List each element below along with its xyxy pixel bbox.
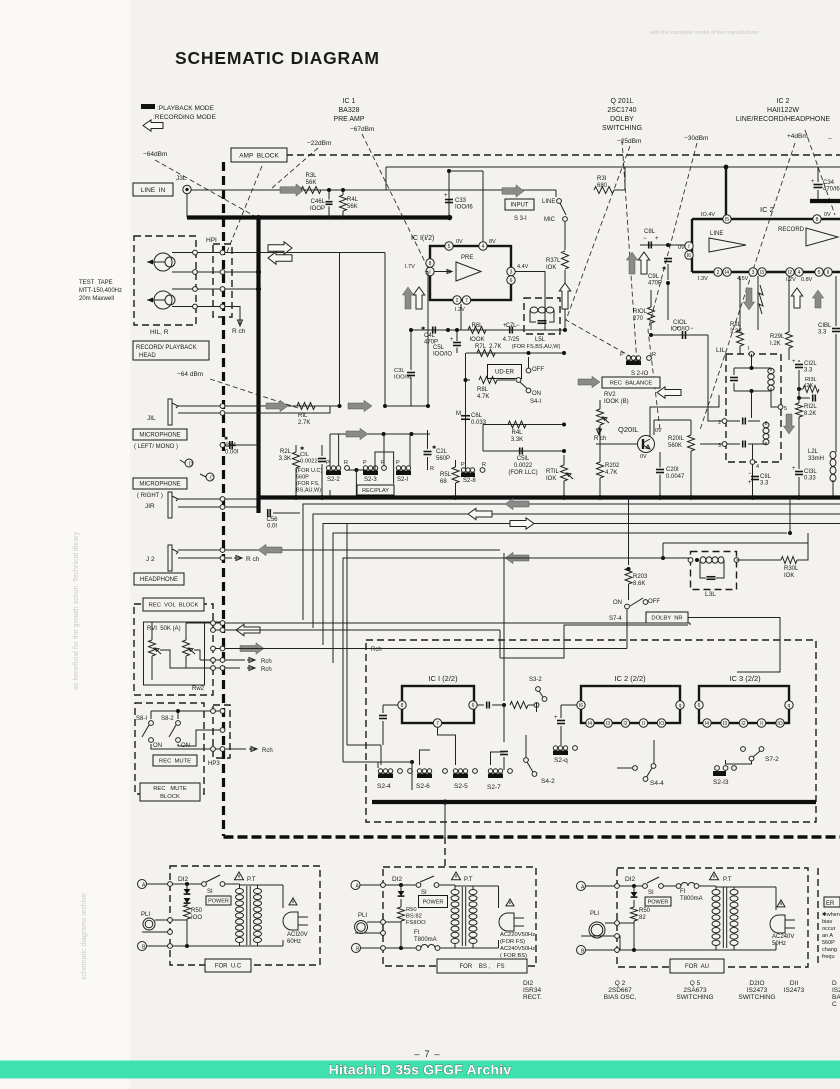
unit1 label box POWER (206, 896, 231, 905)
svg-text:R: R (344, 460, 348, 466)
hollow arrow up mic path (559, 283, 570, 309)
svg-text:3.3: 3.3 (760, 481, 769, 487)
svg-text:S2-8: S2-8 (463, 478, 476, 484)
svg-text:INPUT: INPUT (511, 203, 529, 209)
IC2 pin 15 (723, 215, 731, 223)
svg-text:S 3-I: S 3-I (514, 216, 527, 222)
svg-text:4: 4 (798, 270, 801, 276)
switch S2-13 (715, 766, 720, 771)
svg-text:ER: ER (826, 901, 835, 907)
unit2 resistor R50 (398, 907, 405, 921)
svg-text:SWITCHING: SWITCHING (602, 125, 642, 132)
svg-text:as beneficial for the growth a: as beneficial for the growth action. Tec… (73, 531, 80, 690)
wire left bend of top horizontal (385, 167, 387, 190)
svg-text:frequ: frequ (822, 954, 835, 960)
harness wire row 2 (313, 514, 840, 628)
svg-text:680: 680 (597, 183, 608, 189)
svg-text:(FOR LLC): (FOR LLC) (508, 470, 537, 476)
hollow arrow up below IC1 (413, 287, 424, 309)
unit3 terminal B (577, 946, 586, 955)
svg-text:JIL: JIL (147, 415, 156, 422)
svg-text:S8-2: S8-2 (161, 716, 174, 722)
capacitor C9L vertical (664, 258, 672, 260)
capacitor below pin6 node (500, 751, 508, 753)
unit1 wire lamp row (155, 919, 187, 921)
svg-text:LIL: LIL (716, 347, 725, 354)
gray arrow on R1L wire (266, 400, 288, 411)
capacitor C5lL (519, 448, 521, 455)
unit3 plug warning triangle (777, 900, 785, 907)
wire pin3 out right (515, 272, 545, 331)
svg-text:IOOK: IOOK (469, 337, 484, 343)
capacitor C2L (424, 451, 432, 453)
svg-text:REC VOL BLOCK: REC VOL BLOCK (149, 603, 199, 609)
IC2 pins 12 4 (786, 268, 794, 276)
IC2 pin 8 (813, 215, 821, 223)
junction UD-ER left (464, 378, 468, 382)
svg-text:IO: IO (777, 721, 782, 727)
unit2 terminal B (352, 944, 361, 953)
svg-text:82: 82 (639, 915, 646, 921)
circled C connector (200, 474, 208, 478)
svg-text:PRE: PRE (461, 255, 473, 261)
IC1 pin 6 (507, 276, 515, 284)
inductor L3L contacts (688, 558, 693, 563)
hollow arrow up at pin12 (791, 288, 802, 308)
unit3 transformer bottom wires (716, 949, 776, 951)
svg-text:S4-2: S4-2 (541, 778, 555, 785)
svg-text:+: + (811, 179, 815, 185)
resistor R3L on line-in wire (301, 187, 321, 194)
wire C6L row R4L (465, 421, 467, 425)
svg-text:I2: I2 (788, 270, 792, 276)
svg-text:LINE/RECORD/HEADPHONE: LINE/RECORD/HEADPHONE (736, 116, 830, 123)
svg-text:Rch: Rch (261, 667, 272, 673)
unit2 terminal A (351, 881, 360, 890)
unit1 resistor R50 (184, 905, 191, 919)
svg-text:D: D (832, 980, 837, 987)
svg-text:−: − (828, 136, 832, 143)
svg-text:−67dBm: −67dBm (350, 126, 374, 133)
wire j3l down to bus (186, 194, 188, 218)
svg-text:R3I: R3I (597, 176, 607, 182)
svg-text:BLOCK: BLOCK (160, 794, 180, 800)
svg-text:AMP BLOCK: AMP BLOCK (239, 152, 279, 159)
resistor R11L vertical (737, 330, 744, 346)
switch lever line-mic (560, 203, 566, 215)
svg-text:R203: R203 (633, 574, 648, 580)
svg-text:PLI: PLI (141, 912, 150, 918)
svg-text:560P: 560P (822, 940, 835, 946)
svg-text:560P: 560P (296, 475, 309, 481)
hollow arrow left at head top (268, 252, 292, 264)
label box REC VOL BLOCK (143, 598, 204, 611)
dashed connector outer box to units (444, 837, 446, 866)
wire dolby right hook (688, 618, 780, 673)
svg-text:IS2473: IS2473 (747, 987, 768, 994)
svg-text:MTT-150,400Hz: MTT-150,400Hz (79, 288, 122, 294)
svg-text:−64dBm: −64dBm (143, 151, 167, 158)
svg-text:C34: C34 (823, 180, 835, 186)
unit2 open circles on box edge (381, 883, 386, 888)
wire down from pin3 to R11L (757, 276, 759, 330)
svg-text:C9L: C9L (648, 274, 660, 280)
unit2 label box FOR BS FS (437, 959, 527, 973)
junction R7L right (527, 351, 531, 355)
label box HEADPHONE (134, 573, 184, 585)
svg-text:R20IL: R20IL (668, 436, 685, 442)
svg-text:0.0I: 0.0I (267, 524, 277, 530)
svg-text:3: 3 (752, 270, 755, 276)
hollow arrow left harness row2 (468, 508, 492, 519)
IC1 pins 2 7 bottom (453, 296, 461, 304)
svg-text:S3-2: S3-2 (529, 677, 542, 683)
svg-text:I.7V: I.7V (405, 264, 415, 270)
svg-text:CI2L: CI2L (804, 361, 817, 367)
svg-text:UD-ER: UD-ER (495, 370, 515, 376)
svg-text:RECT.: RECT. (523, 994, 542, 1001)
svg-text:LINE: LINE (542, 199, 555, 205)
thick bus vertical main left (256, 218, 260, 498)
label box REC MUTE BLOCK (140, 783, 200, 801)
svg-text:I3: I3 (760, 270, 764, 276)
label box MICROPHONE left (133, 429, 187, 440)
svg-text:0.8V: 0.8V (801, 277, 813, 283)
harness wire row 5 (343, 558, 690, 671)
head wire row 2 (172, 271, 259, 273)
pointer dashed diagonal from Q201L label to S2-10 (622, 140, 637, 364)
unit2 transformer top wires (455, 885, 499, 887)
svg-text:S2-3: S2-3 (364, 477, 377, 483)
wire J1L tip (178, 405, 340, 407)
wire Q201 base row (596, 443, 637, 445)
svg-text:BS,AU,W): BS,AU,W) (296, 488, 321, 494)
pointer dashed diagonal from -30dBm to C8L input (648, 143, 697, 430)
svg-text:560K: 560K (668, 443, 682, 449)
IC1b pin 8 (398, 701, 406, 709)
hollow arrow right at head top (268, 242, 292, 254)
legend playback mode solid arrow (141, 104, 155, 109)
IC2 pins 2 14 (714, 268, 722, 276)
hollow arrow up input IC2 (638, 252, 649, 274)
jack J1R symbol (168, 492, 172, 518)
svg-text:POWER: POWER (208, 898, 229, 904)
svg-text:Q 201L: Q 201L (611, 98, 634, 105)
capacitor C4L (432, 327, 434, 334)
gray arrow up below IC1 (402, 287, 413, 309)
svg-text:(FOR FS,BS,AU,W): (FOR FS,BS,AU,W) (512, 344, 561, 350)
svg-text:IOOP: IOOP (310, 206, 325, 212)
svg-text:ON: ON (613, 600, 622, 606)
svg-text:REC MUTE: REC MUTE (153, 786, 187, 792)
svg-text:R50: R50 (639, 908, 651, 914)
wire line-in to LINE contact (555, 190, 557, 197)
svg-text:PLI: PLI (358, 913, 367, 919)
svg-text:IOK: IOK (784, 573, 794, 579)
junction R4L top (341, 188, 345, 192)
wire S2-4 6 link (378, 761, 412, 763)
wire R31 to top wire (614, 167, 625, 190)
svg-text:I2K: I2K (805, 383, 814, 389)
capacitor C10L (682, 331, 684, 339)
wire C5L down (456, 348, 458, 354)
pointer dashed diagonal from -64dBm mid to R1L wire (210, 379, 298, 408)
svg-text:+: + (554, 715, 558, 721)
svg-text:RECORD: RECORD (778, 227, 805, 233)
wire IC2 bottom pins row thick (692, 271, 840, 273)
svg-text:CI3L: CI3L (804, 469, 817, 475)
svg-text:C44: C44 (225, 443, 237, 449)
switch OFF S4-1 upper (528, 357, 530, 368)
wire RV1 rows right (186, 622, 690, 624)
switch S8-1 (149, 721, 154, 726)
capacitor C44 (229, 441, 231, 449)
svg-text:C: C (832, 1001, 837, 1008)
wire L3L row (343, 557, 690, 559)
arrow Rch rec mute (249, 747, 257, 752)
svg-text:IS2: IS2 (832, 987, 840, 994)
unit1 transformer top wires (240, 884, 284, 886)
opamp LINE triangle (709, 238, 746, 252)
IC3b pin 6 (695, 701, 703, 709)
wire J1R tip (178, 490, 330, 499)
wire L1L pin1 down (751, 354, 753, 368)
label box REC BALANCE (602, 377, 660, 388)
svg-text:LINE IN: LINE IN (141, 187, 166, 194)
IC1 second half box (402, 686, 474, 723)
svg-text:C3L: C3L (394, 368, 405, 374)
unit1 lamp PL1 (143, 918, 155, 930)
outer dashed block bottom edge (224, 835, 840, 838)
wire pin6 out with cap (477, 704, 484, 706)
svg-text:2.7K: 2.7K (298, 420, 310, 426)
wire S2 row feed with junctions (330, 433, 430, 435)
L1L pin 2 (722, 419, 727, 424)
svg-text:I3: I3 (606, 721, 610, 727)
svg-text:0.00I: 0.00I (225, 450, 239, 456)
switch S2-5 (453, 774, 468, 779)
svg-text:IOO/I6: IOO/I6 (455, 205, 473, 211)
svg-text:3.3K: 3.3K (511, 437, 523, 443)
unit1 terminal B (138, 942, 147, 951)
svg-text:M: M (456, 411, 461, 417)
svg-text:IC 2: IC 2 (777, 98, 790, 105)
capacitor S2-9 feed (557, 720, 565, 722)
wire Rch out row2 (247, 666, 255, 671)
resistor R10L vertical (648, 307, 655, 323)
capacitor C8L (648, 242, 650, 249)
gray arrow left harness row5 (505, 552, 529, 563)
unit3 label PT with triangle (710, 872, 719, 880)
open circles HP3 (220, 709, 225, 714)
svg-text:HAII122W: HAII122W (767, 107, 799, 114)
open circles on dashed bus at jack rows (220, 404, 225, 409)
resistor R30L (781, 557, 797, 564)
gray arrow right RV1 row2 (240, 643, 264, 654)
svg-text:C2L: C2L (436, 449, 448, 455)
unit1 label box FOR U.C (205, 959, 251, 972)
resistor R201L vertical (688, 435, 695, 451)
svg-text::RECORDING MODE: :RECORDING MODE (153, 114, 217, 121)
svg-text:8.6K: 8.6K (633, 581, 645, 587)
switch S2-4 (378, 774, 393, 779)
svg-text:HEADPHONE: HEADPHONE (140, 577, 178, 583)
svg-text:3.3K: 3.3K (730, 329, 742, 335)
label box INPUT (505, 199, 534, 210)
svg-text:( RIGHT ): ( RIGHT ) (137, 493, 163, 499)
svg-text:−22dBm: −22dBm (307, 140, 331, 147)
svg-text:with the complete model of the: with the complete model of the manufactu… (649, 30, 759, 36)
capacitor C34 (814, 184, 823, 186)
svg-text:ON: ON (532, 391, 541, 397)
resistor R4L 3.3K (508, 421, 526, 428)
thick wire right edge C34 (810, 199, 840, 203)
gray arrow down right area (783, 414, 794, 434)
svg-text:4.7K: 4.7K (605, 470, 617, 476)
outer dashed block left edge thick dashed vertical (222, 162, 225, 836)
svg-text:D2IO: D2IO (749, 980, 764, 987)
svg-text:C46L: C46L (311, 199, 326, 205)
unit2 diode D12 (399, 883, 403, 887)
svg-text:8: 8 (429, 261, 432, 267)
power unit1 dashed box (170, 866, 320, 965)
unit3 switch S1 (643, 884, 648, 889)
wire top long horizontal to IC2 (386, 166, 840, 168)
wire harness feed pair down to switch row (342, 558, 344, 762)
unit1 transformer bottom wires (240, 945, 284, 947)
svg-text:FI: FI (680, 889, 686, 895)
junction L5L right (563, 328, 567, 332)
unit2 switch S1 (416, 883, 421, 888)
svg-text:50Hz: 50Hz (772, 941, 786, 947)
svg-text:−: − (690, 326, 694, 332)
svg-text:✱when: ✱when (822, 911, 840, 918)
unit2 label box POWER double (420, 897, 446, 906)
svg-text:C4L: C4L (424, 333, 436, 339)
head wire row 3 (172, 288, 259, 290)
svg-text:R: R (652, 352, 656, 358)
svg-text:HIL, R: HIL, R (150, 329, 169, 336)
L1L low cap row (742, 441, 744, 448)
junction R3L C46L (327, 188, 331, 192)
svg-text:20m Maxwell: 20m Maxwell (79, 296, 114, 302)
svg-text:Rch: Rch (261, 659, 272, 665)
svg-text:+: + (450, 337, 454, 343)
IC2b pin 16 (577, 701, 585, 709)
open circles rec vol column (211, 621, 216, 626)
switch S4-2 (524, 758, 529, 763)
L1L mid cap row (742, 418, 744, 425)
svg-text:S2-q: S2-q (554, 757, 568, 764)
svg-text:C8L: C8L (644, 229, 656, 235)
svg-text:8: 8 (401, 703, 404, 709)
svg-text:0V: 0V (655, 428, 662, 434)
svg-text:I4: I4 (588, 721, 592, 727)
svg-text:✱: ✱ (224, 436, 228, 442)
wire pin1 arrow into triangle (434, 270, 452, 274)
svg-text:R ch: R ch (232, 328, 246, 335)
svg-text:2SA673: 2SA673 (683, 987, 707, 994)
capacitor C11L (751, 476, 759, 478)
label box REC MUTE (153, 755, 197, 766)
RV1 inner box (144, 622, 205, 685)
junction line-in bus (256, 215, 261, 220)
svg-text:R: R (430, 466, 434, 472)
svg-text:II: II (760, 721, 763, 727)
switch S2-10 (626, 361, 641, 366)
capacitor at IC1b pin8 (379, 715, 387, 717)
svg-text:C33: C33 (455, 198, 467, 204)
svg-text:C: C (210, 476, 214, 482)
svg-text:5: 5 (818, 270, 821, 276)
wire J1L ring (178, 406, 330, 413)
svg-text:S 2-IO: S 2-IO (631, 371, 649, 377)
head wire connector circles column 2 (220, 250, 225, 255)
svg-text:2: 2 (717, 270, 720, 276)
switch S2-9 (553, 751, 568, 756)
svg-text:−: − (643, 236, 647, 242)
svg-text:J 2: J 2 (146, 556, 155, 563)
IC1 pin 3 (507, 267, 515, 275)
wire pin7 down to S2-5 (438, 727, 456, 765)
svg-text:C7L: C7L (505, 323, 517, 329)
inductor L3L coil (700, 557, 706, 563)
IC1b pin 7 (433, 719, 441, 727)
svg-text:560P: 560P (436, 456, 450, 462)
svg-text:R37L: R37L (546, 258, 561, 264)
IC2 pins 3 13 (749, 268, 757, 276)
harness wire row 3 (323, 524, 840, 646)
svg-text:I6: I6 (579, 703, 583, 709)
svg-text:3.3: 3.3 (818, 330, 827, 336)
wire pin27 down (460, 304, 462, 330)
wire C33 row horizontal (449, 170, 483, 172)
capacitor C1L (318, 458, 326, 460)
svg-text:R2L: R2L (280, 449, 292, 455)
unit3 open circles on box edge (615, 884, 620, 889)
wire C3L vertical (410, 330, 412, 370)
svg-text:2SD667: 2SD667 (608, 987, 632, 994)
wire dolby to inner box (627, 609, 688, 625)
svg-text:I3: I3 (723, 721, 727, 727)
svg-text:I4: I4 (725, 270, 729, 276)
svg-text:bias: bias (822, 919, 832, 925)
wire C34 stubs (817, 167, 819, 182)
capacitor C33 (445, 199, 453, 201)
svg-text:LINE: LINE (710, 231, 723, 237)
IC1 pin 4 (479, 242, 487, 250)
unit2 AC plug (499, 913, 514, 931)
svg-text:L2L: L2L (808, 449, 819, 455)
svg-text:Q20IL: Q20IL (618, 425, 638, 434)
svg-text:FOR AU: FOR AU (685, 964, 709, 970)
svg-text:C20I: C20I (666, 467, 679, 473)
svg-text:IO: IO (659, 721, 664, 727)
unit3 AC plug (770, 915, 785, 933)
inductor L2L coil (830, 451, 836, 458)
jack J1L symbol (168, 399, 172, 425)
wire junction down from pin6 node (503, 705, 505, 742)
svg-text:60Hz: 60Hz (287, 939, 301, 945)
hollow arrow on line-in wire (280, 184, 304, 196)
capacitor C5L vertical (453, 342, 461, 344)
svg-text:Q 2: Q 2 (615, 980, 626, 987)
wire S2-3 inner rect (375, 452, 394, 484)
svg-text:T800mA: T800mA (414, 937, 437, 943)
svg-text:TEST TAPE: TEST TAPE (79, 280, 113, 286)
svg-text:R30L: R30L (784, 566, 799, 572)
gray arrow on R1L wire right (348, 400, 372, 411)
